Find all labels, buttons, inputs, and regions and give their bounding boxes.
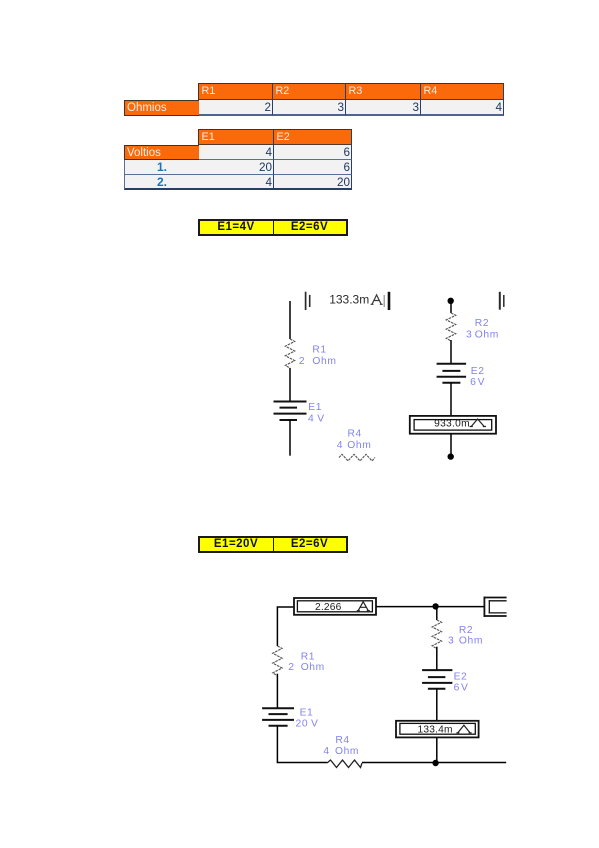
wire node to R2 <box>450 301 452 313</box>
svg-text:R4: R4 <box>335 735 349 746</box>
svg-text:Ohm: Ohm <box>335 746 359 757</box>
battery E2 (circuit 2) <box>422 670 452 689</box>
resistor R2 (circuit 2) <box>432 620 441 649</box>
battery E2 (circuit 1) <box>437 364 467 383</box>
ammeter M2 unit A glyph <box>470 419 486 427</box>
wire E1 to bottom corner <box>277 726 327 763</box>
svg-text:133.3m: 133.3m <box>329 293 369 307</box>
resistor R4 floating (circuit 1) <box>339 454 375 461</box>
svg-text:2.266: 2.266 <box>315 602 342 613</box>
svg-text:933.0m: 933.0m <box>434 418 470 429</box>
resistor R4 (circuit 2) <box>327 760 362 768</box>
wire R1 to E1 <box>276 674 278 709</box>
svg-text:133.4m: 133.4m <box>418 725 453 736</box>
ammeter M2 reading <box>434 418 470 429</box>
wire R2 to E2 <box>450 340 452 364</box>
node dot (top of right branch) <box>448 298 454 304</box>
svg-text:V: V <box>317 414 324 425</box>
svg-text:V: V <box>478 377 485 388</box>
svg-text:E1: E1 <box>300 708 314 719</box>
svg-text:2: 2 <box>299 356 305 367</box>
svg-text:Ohm: Ohm <box>459 636 483 647</box>
resistor R1 (circuit 1) <box>285 339 294 368</box>
ammeter M2 box (933.0mA) <box>410 416 496 434</box>
svg-text:Ohm: Ohm <box>475 329 499 340</box>
svg-text:Ohm: Ohm <box>347 440 371 451</box>
resistor R1 (circuit 2) <box>273 646 282 676</box>
top wire meter to junction and partial meter <box>376 606 484 608</box>
svg-text:4: 4 <box>323 746 329 757</box>
wire below E1 <box>289 420 291 456</box>
ammeter A1 partial left bars <box>306 292 310 310</box>
wire (left branch top) <box>289 301 291 339</box>
battery E1 (circuit 2) <box>262 708 294 725</box>
svg-text:R1: R1 <box>312 345 326 356</box>
ammeter M3 box (2.266 A) <box>294 598 376 615</box>
wire meter to bottom node <box>450 434 452 454</box>
junction node (bottom middle) <box>432 760 438 766</box>
ammeter M4 partial box (cropped) <box>484 597 507 617</box>
svg-text:3: 3 <box>466 329 472 340</box>
svg-text:E1: E1 <box>308 402 322 413</box>
junction node (top middle) <box>432 603 438 609</box>
svg-text:6: 6 <box>454 683 460 694</box>
svg-text:2: 2 <box>288 662 294 673</box>
wire R2 to E2 <box>436 647 438 670</box>
ammeter M3 reading <box>315 602 342 613</box>
svg-text:V: V <box>461 683 468 694</box>
ammeter A1 reading 133.3mA <box>329 293 369 307</box>
wire meter to bottom junction <box>436 738 438 763</box>
svg-text:4: 4 <box>337 440 343 451</box>
svg-text:20: 20 <box>296 719 309 730</box>
bottom wire to right <box>362 762 506 764</box>
ammeter M5 box (133.4mA) <box>396 721 479 738</box>
ammeter M3 unit A glyph <box>357 602 370 611</box>
ammeter partial bars top-right <box>499 292 501 310</box>
node dot (bottom of right branch) <box>448 453 454 459</box>
wire R1 to E1 <box>289 368 291 402</box>
svg-text:4: 4 <box>308 414 314 425</box>
svg-text:R1: R1 <box>301 652 315 663</box>
svg-text:3: 3 <box>448 636 454 647</box>
svg-text:R4: R4 <box>348 429 362 440</box>
wire E2 to meter <box>436 689 438 721</box>
svg-text:R2: R2 <box>459 625 473 636</box>
svg-text:Ohm: Ohm <box>312 356 336 367</box>
ammeter A1 partial right bars <box>383 295 385 307</box>
battery E1 (circuit 1) <box>274 402 307 421</box>
wire junction down from top <box>436 606 438 620</box>
wire E2 to meter <box>450 383 452 416</box>
svg-text:V: V <box>311 719 318 730</box>
svg-text:6: 6 <box>470 377 476 388</box>
ammeter M5 unit A glyph <box>456 725 471 733</box>
svg-text:R2: R2 <box>475 318 489 329</box>
ammeter M5 reading <box>418 725 453 736</box>
resistor R2 (circuit 1) <box>446 313 455 341</box>
ammeter A1 unit A glyph <box>371 295 383 304</box>
svg-text:E2: E2 <box>454 672 468 683</box>
svg-text:E2: E2 <box>471 366 485 377</box>
svg-text:Ohm: Ohm <box>301 662 325 673</box>
top-left corner wire <box>277 607 293 646</box>
